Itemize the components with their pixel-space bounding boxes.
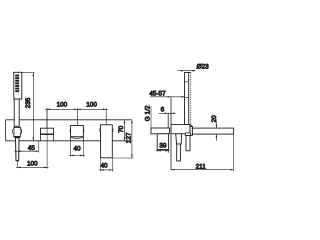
spout 40-dim extension lines bbox=[101, 158, 113, 172]
hand shower tip bottom edge bbox=[16, 160, 19, 162]
211 dim bbox=[233, 135, 235, 172]
knob base bottom curve bbox=[71, 137, 83, 138]
wall face line bbox=[170, 97, 172, 170]
knob right side bulge bbox=[82, 129, 85, 133]
svg-text:235: 235 bbox=[25, 97, 32, 108]
127 dim bbox=[131, 120, 133, 158]
mixer body block (side) bbox=[171, 125, 190, 134]
G 1/2 leader line bbox=[150, 106, 152, 134]
spout 40 dim bbox=[99, 169, 114, 171]
valve backplate (fixture 2) bbox=[41, 128, 54, 134]
39 dim bbox=[156, 150, 158, 152]
svg-text:40: 40 bbox=[73, 146, 81, 153]
spout left trim nub bbox=[99, 129, 102, 131]
svg-text:39: 39 bbox=[159, 142, 167, 149]
45 dim bbox=[38, 141, 40, 153]
235 dim bbox=[22, 73, 35, 141]
45-57 dim bbox=[150, 96, 185, 98]
side view: Ø23 dim line bbox=[178, 70, 196, 72]
pipe top edge bbox=[185, 71, 191, 73]
pipe joint ticks bbox=[185, 82, 189, 98]
svg-text:70: 70 bbox=[118, 125, 125, 133]
svg-text:40: 40 bbox=[100, 162, 108, 169]
hand shower handle bbox=[14, 99, 19, 126]
lever shaft bbox=[177, 144, 181, 161]
spout tube (side) bbox=[192, 128, 233, 134]
svg-text:Ø23: Ø23 bbox=[197, 64, 210, 71]
hand shower lower tip bbox=[16, 138, 20, 161]
diverter cap (side) bbox=[185, 133, 190, 136]
svg-text:127: 127 bbox=[125, 132, 132, 143]
svg-text:6: 6 bbox=[161, 106, 165, 113]
spout (front) bbox=[101, 125, 113, 158]
bracket left ear bbox=[13, 129, 14, 133]
recessed body back box bbox=[157, 134, 168, 150]
hidden hose dashed line bbox=[190, 72, 192, 124]
backplate axis extension line bbox=[46, 108, 48, 168]
knob base sides down to bar bbox=[71, 137, 84, 141]
svg-text:20: 20 bbox=[211, 115, 218, 123]
knob 40-dim extension lines bbox=[71, 141, 84, 157]
hand shower head bbox=[14, 72, 22, 99]
backplate sides down to bar bbox=[41, 134, 54, 141]
20 dim bbox=[215, 121, 217, 141]
bottom 100 dim bbox=[16, 166, 49, 168]
bracket bottom thick edge bbox=[14, 136, 20, 138]
body chamfer to spout nut bbox=[190, 125, 192, 127]
6 dim bbox=[159, 112, 176, 114]
svg-text:G 1/2: G 1/2 bbox=[145, 105, 152, 121]
spout nut bbox=[190, 127, 192, 136]
lever base (side) bbox=[176, 134, 182, 144]
back connection box (hand shower outlet) bbox=[151, 128, 170, 134]
bracket collar bbox=[14, 127, 21, 136]
knob 40 dim bbox=[69, 154, 85, 156]
hand shower centerline / bottom-100 extension bbox=[16, 123, 18, 168]
svg-text:211: 211 bbox=[196, 163, 207, 170]
bracket right ear bbox=[20, 129, 21, 133]
knob left side bulge bbox=[69, 129, 72, 133]
svg-text:100: 100 bbox=[27, 161, 38, 168]
wall back line bbox=[167, 113, 169, 153]
70 dim bbox=[123, 120, 125, 141]
supply pipe (side) bbox=[185, 72, 189, 124]
knob axis extension line bbox=[76, 108, 78, 125]
top 100/100 dim bbox=[45, 108, 107, 110]
front view: mounting bar top edge (line A) bbox=[6, 119, 132, 121]
hand shower head hatch (spray face) bbox=[15, 75, 19, 93]
backplate thick bottom edge bbox=[41, 133, 54, 135]
front view: mounting bar left edge bbox=[5, 120, 7, 141]
svg-text:100: 100 bbox=[86, 102, 97, 109]
mixer knob (front) bbox=[71, 126, 84, 137]
svg-text:45: 45 bbox=[28, 145, 36, 152]
svg-text:45-57: 45-57 bbox=[149, 90, 166, 97]
svg-text:100: 100 bbox=[57, 102, 68, 109]
spout right trim nub bbox=[111, 129, 114, 131]
front view: mounting bar bottom edge (line B) bbox=[6, 140, 129, 142]
spout bottom extension line for 127 dim bbox=[112, 157, 133, 159]
spout axis extension line bbox=[105, 108, 107, 125]
diverter shaft bbox=[186, 136, 190, 151]
